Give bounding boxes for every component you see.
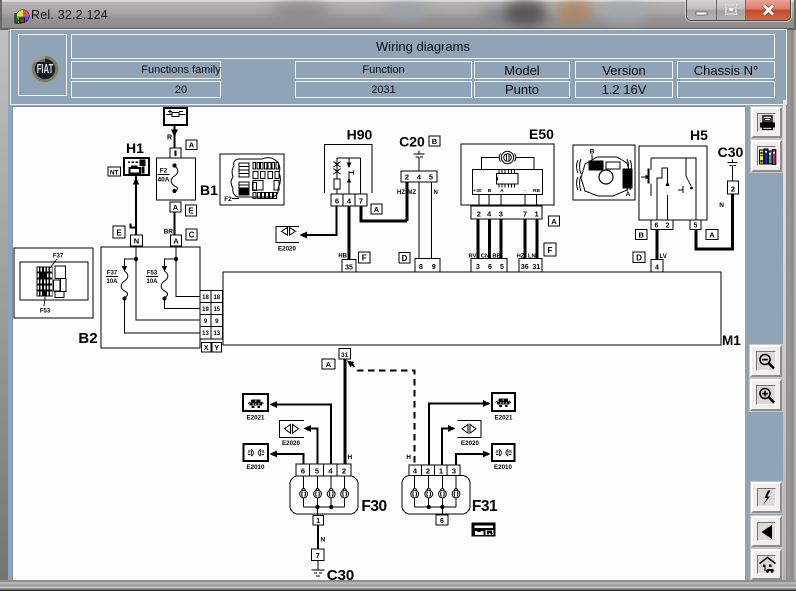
buzzer wires	[482, 158, 535, 170]
svg-text:3: 3	[499, 210, 503, 219]
hazard switch H5 internals	[641, 158, 696, 220]
svg-text:H: H	[406, 454, 411, 461]
F30 pin connector 6 5 4 2	[296, 464, 351, 476]
E50 internal pin stubs	[479, 194, 537, 206]
H90 pin connector 6 4 7	[331, 194, 367, 206]
connector 31 on M1 bottom	[339, 349, 351, 360]
H5 pin connector 6 2	[651, 220, 673, 230]
wire F31 pin3 to E2010	[456, 451, 491, 466]
wire C20 pin2 down (HZ/MZ)	[406, 182, 409, 221]
svg-text:F: F	[548, 246, 553, 255]
section label F	[544, 243, 556, 256]
svg-text:7: 7	[316, 551, 320, 560]
svg-text:C20: C20	[399, 134, 425, 150]
svg-text:RB: RB	[533, 188, 540, 194]
F31 lamp 2	[425, 476, 433, 508]
F30 lamp 3	[327, 476, 335, 507]
svg-text:BB: BB	[492, 254, 500, 260]
svg-text:B2: B2	[78, 330, 97, 347]
section label E	[186, 205, 197, 216]
header row 3	[71, 81, 221, 98]
wire A to pin 18	[176, 246, 200, 297]
svg-text:H1: H1	[126, 140, 144, 156]
svg-text:B1: B1	[200, 182, 218, 198]
svg-text:RV: RV	[469, 254, 477, 260]
section label A	[186, 140, 197, 150]
connector 8 9 on M1	[415, 259, 440, 273]
connector 4 on M1	[651, 260, 663, 273]
connector 3 6 5 on M1	[471, 259, 507, 273]
svg-text:N: N	[134, 237, 139, 246]
F31 internal bus	[415, 505, 456, 515]
engine bay location illustration	[573, 145, 635, 200]
wire H1 to B2 with up arrow	[133, 176, 139, 236]
svg-text:6: 6	[488, 264, 492, 271]
svg-text:NT: NT	[110, 169, 119, 176]
wire 31 to F30 pin2 (H)	[344, 359, 347, 464]
svg-text:8: 8	[419, 264, 423, 271]
svg-text:C30: C30	[718, 144, 744, 160]
wire battery to B1 with down arrow	[171, 125, 178, 158]
svg-text:H: H	[348, 454, 353, 461]
svg-text:F: F	[362, 254, 367, 263]
wire H90 pin7 to C20 pin2	[361, 206, 407, 221]
direction indicator symbol E2020 (left)	[280, 421, 305, 438]
dashed wire 31 to F31 pin4 (H)	[347, 361, 415, 466]
svg-text:7: 7	[359, 197, 363, 206]
svg-text:18: 18	[213, 295, 220, 301]
svg-text:D: D	[636, 254, 642, 263]
E50 inner module box	[472, 169, 542, 194]
svg-text:7: 7	[523, 210, 527, 219]
svg-text:C: C	[189, 231, 195, 240]
direction indicator symbol E2020 (right)	[458, 421, 482, 438]
section label F	[359, 252, 371, 263]
svg-text:1: 1	[535, 210, 539, 219]
connector 36 31 on M1	[519, 259, 542, 273]
svg-text:10A: 10A	[146, 279, 158, 285]
battery A1	[164, 106, 187, 125]
fuse F53 10A value label	[146, 271, 158, 285]
node junction on A wire	[174, 257, 178, 261]
wire F31 pin2 to E2021	[429, 400, 491, 465]
side lamp symbol E2010 (left)	[244, 444, 269, 461]
fusebox B2	[101, 247, 200, 348]
svg-text:2: 2	[731, 184, 735, 193]
pin N of B2	[131, 235, 143, 246]
svg-text:E2020: E2020	[282, 440, 300, 447]
svg-text:E: E	[188, 207, 194, 216]
svg-text:3: 3	[476, 264, 480, 271]
connector label Y	[212, 343, 222, 353]
svg-text:HZ: HZ	[517, 254, 525, 260]
svg-text:31: 31	[341, 352, 349, 359]
svg-text:A: A	[374, 205, 380, 214]
flasher unit H90 outline	[325, 145, 373, 194]
section label A	[371, 204, 382, 214]
svg-text:F53: F53	[40, 309, 51, 315]
lamp cluster F30 body	[290, 476, 358, 514]
svg-text:D: D	[402, 254, 408, 263]
svg-text:B: B	[590, 149, 595, 156]
svg-text:B: B	[488, 188, 492, 194]
books button	[751, 140, 782, 172]
svg-text:+30: +30	[473, 188, 481, 194]
fuse F2 40A value label	[158, 168, 170, 184]
buzzer symbol	[499, 151, 516, 163]
ignition switch H1	[124, 158, 149, 175]
flasher unit H90 internals	[334, 158, 361, 194]
wire C30 to H5 pin5	[696, 194, 733, 249]
wire E50 pin1 (LN)	[536, 219, 539, 259]
F30 pin 1	[313, 516, 324, 526]
svg-text:H90: H90	[347, 127, 373, 143]
fuse F53	[161, 266, 200, 309]
hazard lamp symbol E2021 (right)	[492, 393, 515, 411]
F31 lamp 1	[411, 476, 419, 508]
section label D	[633, 252, 645, 263]
svg-text:6: 6	[440, 518, 444, 525]
wire H5 pin6 to connector 4 (LV)	[656, 230, 659, 261]
zoom in button	[750, 379, 782, 411]
svg-text:F2: F2	[224, 196, 232, 203]
svg-text:N: N	[321, 537, 326, 544]
svg-text:E: E	[116, 228, 122, 237]
svg-text:A: A	[189, 141, 195, 150]
F31 pin connector 4 2 1 3	[409, 465, 460, 476]
section label A	[322, 359, 335, 369]
svg-text:15: 15	[213, 307, 220, 313]
svg-text:36: 36	[521, 264, 529, 271]
wire C20 pin5 to connector 9 (N)	[431, 182, 433, 259]
pin A of B1 (bottom)	[170, 202, 181, 212]
svg-text:B: B	[432, 137, 438, 146]
svg-text:6: 6	[655, 223, 659, 230]
wire F30 pin5 to E2020	[304, 425, 318, 464]
wire F31 pin1 to E2020	[442, 425, 455, 465]
svg-text:B: B	[638, 231, 644, 240]
svg-text:F2: F2	[160, 168, 168, 175]
svg-text:H5: H5	[690, 127, 708, 143]
wire E50 pin3 (BB)	[500, 219, 503, 259]
fuse F37 10A value label	[106, 271, 118, 285]
svg-text:5: 5	[429, 173, 433, 182]
wire E50 pin2 (RV)	[476, 219, 479, 259]
M1 connector strip Y pins 18 15 9 13	[211, 291, 223, 340]
wire H90 pin6 to E2020 with arrow	[300, 206, 337, 239]
ground C30 (bottom)	[312, 561, 325, 577]
svg-text:A: A	[326, 360, 332, 369]
pin 1 of B1	[170, 148, 181, 158]
svg-text:HB: HB	[338, 254, 347, 260]
svg-text:13: 13	[202, 331, 209, 337]
section label C	[186, 229, 197, 240]
F30 lamp 2	[314, 476, 322, 507]
svg-text:A: A	[173, 203, 179, 212]
svg-text:BR: BR	[164, 229, 174, 236]
lamp cluster F31 body	[402, 476, 470, 515]
C30 pin 2	[728, 181, 739, 194]
wire F30 to C30 (N)	[317, 525, 319, 549]
B1 fusebox location illustration	[220, 154, 284, 205]
wire F30 pin4 to E2021	[270, 401, 332, 464]
svg-text:LN: LN	[528, 254, 536, 260]
svg-text:10A: 10A	[106, 279, 118, 285]
header row 2	[71, 61, 221, 79]
B2 fusebox location illustration	[14, 248, 93, 318]
fuse B1 schematic box	[157, 158, 196, 200]
svg-text:A: A	[173, 237, 179, 246]
F31 pin 6	[436, 515, 448, 525]
F30 lamp 4	[341, 476, 349, 507]
C30 pin 7	[312, 549, 325, 561]
svg-text:A: A	[626, 191, 631, 198]
svg-text:19: 19	[202, 307, 209, 313]
svg-text:A: A	[500, 188, 504, 194]
back button	[751, 516, 782, 547]
svg-text:FIAT: FIAT	[36, 64, 53, 77]
svg-text:6: 6	[301, 467, 305, 476]
svg-text:2: 2	[666, 223, 670, 230]
pin A of B2	[171, 235, 182, 246]
F30 lamp 1	[300, 476, 308, 507]
svg-text:5: 5	[694, 223, 698, 230]
bottom frame drawn last	[0, 580, 796, 591]
hazard lamp symbol E2021 (left)	[243, 394, 268, 411]
wire N to pin 9	[136, 246, 200, 320]
splice hook	[131, 224, 137, 228]
E50 internal pin labels	[473, 188, 540, 194]
svg-text:E2021: E2021	[495, 415, 513, 422]
earth point E2020 symbol	[276, 227, 299, 243]
svg-text:5: 5	[315, 467, 319, 476]
wire C20 pin4 to connector 8	[418, 182, 420, 259]
F31 lamp 3	[439, 476, 447, 508]
hazard switch H5 box	[639, 146, 707, 220]
section label D	[399, 253, 410, 264]
wire E50 pin7 (HZ)	[524, 219, 527, 259]
app icon	[14, 9, 30, 25]
home button	[751, 549, 782, 580]
svg-text:A: A	[551, 217, 557, 226]
C20 connector pins 2 4 5	[401, 171, 437, 182]
lightning button	[751, 482, 782, 513]
svg-text:3: 3	[452, 467, 456, 476]
svg-text:F31: F31	[472, 498, 498, 515]
fuse F53 branch wire	[165, 259, 177, 266]
svg-text:E2010: E2010	[247, 464, 265, 471]
section label NT	[108, 167, 121, 176]
svg-text:MZ: MZ	[408, 190, 417, 196]
svg-text:N: N	[434, 190, 438, 196]
svg-text:HZ: HZ	[397, 190, 405, 196]
IC chip symbol	[496, 170, 517, 187]
section label A	[706, 230, 718, 240]
svg-text:18: 18	[202, 295, 209, 301]
svg-text:Y: Y	[214, 345, 219, 352]
svg-text:2: 2	[405, 173, 409, 182]
svg-text:31: 31	[532, 264, 540, 271]
svg-text:2: 2	[477, 210, 481, 219]
header row 1	[71, 34, 775, 59]
connector 35 on M1	[342, 260, 356, 273]
wire labels HZ LN	[517, 254, 536, 260]
section label B	[636, 230, 648, 240]
svg-text:A: A	[709, 231, 715, 240]
F31 lamp 4	[452, 476, 460, 508]
svg-text:2: 2	[342, 467, 346, 476]
svg-text:X: X	[204, 345, 209, 352]
print button	[751, 107, 782, 138]
connector label X	[202, 343, 212, 353]
B2 connector strip X pins 18 19 9 13	[200, 291, 211, 340]
section label E	[113, 226, 125, 238]
svg-text:CN: CN	[481, 254, 489, 260]
svg-text:1: 1	[316, 518, 320, 525]
E50 pin connector 2 4 3 7 1	[471, 206, 542, 219]
svg-text:40A: 40A	[158, 177, 170, 184]
alarm control unit E50 box	[461, 144, 554, 205]
svg-text:E2020: E2020	[461, 440, 479, 447]
dashboard location icon	[472, 523, 495, 536]
node junction on N wire	[134, 257, 138, 261]
svg-text:E50: E50	[529, 126, 554, 142]
svg-text:13: 13	[213, 331, 220, 337]
svg-text:C30: C30	[327, 567, 355, 580]
svg-text:F37: F37	[107, 271, 118, 277]
svg-text:F53: F53	[147, 271, 158, 277]
svg-text:4: 4	[655, 265, 659, 272]
wire labels RV CN BB	[469, 254, 501, 260]
fuse F37 branch wire	[125, 259, 137, 266]
section label A	[549, 216, 560, 226]
fuse F37	[121, 266, 200, 333]
side lamp symbol E2010 (right)	[492, 444, 515, 461]
FIAT logo cell	[18, 34, 67, 96]
svg-text:R: R	[167, 135, 172, 142]
svg-text:F30: F30	[361, 498, 386, 515]
wire BR B1 to B2	[174, 212, 176, 235]
F30 internal bus	[304, 505, 345, 516]
wire E50 pin4 (CN)	[488, 219, 491, 259]
svg-text:F37: F37	[53, 254, 64, 260]
body computer M1	[223, 272, 721, 345]
wire H90 pin4 to connector 35 (HB)	[348, 206, 351, 260]
svg-text:N: N	[719, 202, 724, 209]
svg-text:9: 9	[432, 264, 436, 271]
svg-text:E2020: E2020	[278, 246, 296, 253]
zoom out button	[750, 345, 782, 377]
svg-text:E2021: E2021	[247, 415, 265, 422]
svg-text:35: 35	[345, 265, 353, 272]
H5 pin connector 5	[690, 220, 701, 230]
svg-text:6: 6	[335, 197, 339, 206]
wire F30 pin6 to E2010	[270, 451, 304, 465]
ground symbol C30	[728, 160, 738, 182]
svg-text:E2010: E2010	[494, 464, 512, 471]
ground symbol above C20	[414, 151, 425, 172]
svg-text:M1: M1	[722, 333, 741, 348]
section label B	[429, 136, 440, 146]
svg-text:5: 5	[500, 264, 504, 271]
svg-text:2: 2	[426, 467, 430, 476]
svg-text:1: 1	[439, 467, 443, 476]
